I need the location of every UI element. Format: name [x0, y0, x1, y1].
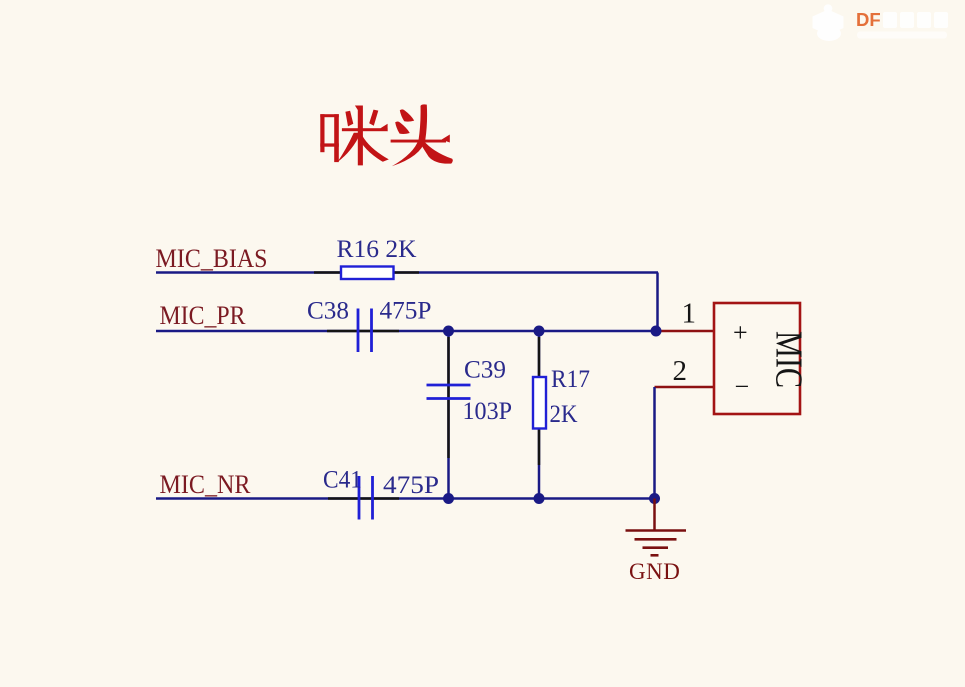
svg-text:475P: 475P: [383, 472, 439, 499]
svg-text:MIC_BIAS: MIC_BIAS: [156, 244, 268, 273]
svg-text:C39: C39: [464, 357, 506, 384]
resistor R17: [533, 377, 546, 429]
svg-text:DF: DF: [856, 9, 881, 30]
junction node at R17 top: [534, 326, 545, 337]
resistor R16 pins (black): [314, 271, 419, 274]
capacitor C41 plates: [359, 476, 373, 520]
wire MIC_BIAS vertical down to pin1 node: [656, 273, 659, 332]
svg-text:MIC: MIC: [768, 331, 810, 388]
wire MIC_NR / bottom rail: [156, 497, 655, 500]
resistor R16: [341, 267, 394, 280]
svg-text:2K: 2K: [550, 401, 578, 428]
svg-text:MIC_NR: MIC_NR: [160, 470, 252, 499]
title 咪头: [320, 104, 453, 166]
svg-text:−: −: [735, 372, 750, 401]
svg-text:MIC_PR: MIC_PR: [160, 301, 247, 330]
wire vertical branch R17: [538, 331, 541, 499]
resistor R17 pins (black): [538, 337, 541, 465]
junction node at ground rail: [649, 493, 660, 504]
capacitor C38 pins (black): [327, 330, 399, 333]
svg-text:C38: C38: [307, 298, 349, 325]
capacitor C41 pins (black): [328, 497, 399, 500]
capacitor C39 plates: [427, 385, 471, 399]
capacitor C38 plates: [358, 309, 372, 353]
capacitor C39 pins (black): [447, 337, 450, 458]
wire MIC_BIAS horizontal: [156, 271, 658, 274]
svg-text:R16 2K: R16 2K: [337, 236, 417, 263]
wire pin2 down to ground rail: [653, 387, 656, 499]
svg-text:475P: 475P: [380, 298, 432, 325]
ground symbol bars: [626, 531, 687, 556]
wire vertical branch C39: [447, 331, 450, 499]
junction node at pin1: [651, 326, 662, 337]
junction node at R17 bottom: [534, 493, 545, 504]
svg-text:1: 1: [682, 298, 697, 330]
svg-text:GND: GND: [629, 559, 680, 584]
svg-text:C41: C41: [323, 467, 362, 494]
ground symbol stem: [653, 499, 656, 531]
pin 2 of MIC: [655, 386, 715, 389]
头: [392, 104, 427, 166]
watermark logo icon: [813, 4, 844, 41]
junction node at C41/C39 bottom: [443, 493, 454, 504]
svg-text:103P: 103P: [463, 398, 513, 425]
connector MIC body: [714, 303, 800, 414]
pin 1 of MIC: [656, 330, 714, 333]
watermark white community text: [857, 12, 948, 39]
口 radical of 咪: [320, 114, 324, 152]
svg-text:2: 2: [673, 355, 688, 387]
svg-text:R17: R17: [551, 366, 590, 393]
wire MIC_PR horizontal: [156, 330, 656, 333]
svg-text:+: +: [733, 318, 748, 347]
junction node at C38/C39 top: [443, 326, 454, 337]
米 part of 咪: [342, 128, 388, 131]
